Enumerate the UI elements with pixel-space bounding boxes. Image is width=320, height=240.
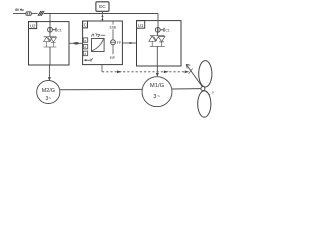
svg-text:FP: FP — [117, 41, 121, 45]
motor M1/G — [142, 77, 172, 107]
wire supply lead — [13, 13, 26, 15]
breaker CB — [26, 12, 31, 16]
wire — [112, 45, 114, 55]
wire EC down — [101, 11, 103, 14]
converter box U1 — [137, 21, 182, 66]
node circle in U1 — [155, 27, 160, 32]
thyristor pair U2 — [44, 37, 57, 47]
svg-text:60 Hz: 60 Hz — [15, 8, 24, 12]
wire to motor M2/G — [48, 47, 51, 78]
bidirectional arrow U2 to C — [69, 42, 83, 44]
svg-text:3~: 3~ — [45, 96, 51, 102]
dashed pitch control line — [102, 65, 189, 73]
wire — [31, 13, 37, 15]
converter box U2 — [29, 22, 70, 65]
arrowhead into M1/G — [156, 73, 159, 77]
svg-text:3~: 3~ — [153, 94, 160, 100]
port square a — [83, 38, 87, 43]
function block with curve — [92, 39, 105, 52]
svg-text:U2: U2 — [30, 24, 36, 29]
EC box — [96, 2, 109, 12]
wire top rail — [44, 13, 158, 15]
wire — [49, 32, 51, 37]
svg-text:9: 9 — [212, 91, 214, 95]
motor M2/G — [37, 80, 60, 103]
wire drop to U2 — [49, 14, 51, 28]
propeller blade upper — [199, 61, 212, 87]
svg-text:EC: EC — [99, 4, 106, 10]
svg-text:C1: C1 — [165, 28, 169, 32]
pitch rod diagonal — [186, 64, 203, 87]
wire — [157, 32, 159, 36]
arrow C to U1 — [122, 42, 136, 44]
label box C — [83, 21, 88, 28]
wire — [112, 29, 114, 39]
capacitor C1 — [52, 28, 61, 33]
node circle in U2 — [48, 27, 53, 32]
signal column ESB — [112, 21, 114, 25]
svg-text:d: d — [84, 45, 86, 49]
svg-text:M1/G: M1/G — [150, 83, 165, 89]
wire drop to U1 — [157, 14, 159, 28]
hub — [201, 87, 205, 91]
meter circle — [111, 40, 116, 45]
shaft M2/G to M1/G — [60, 88, 143, 90]
controller box C — [83, 21, 123, 65]
label box U1 — [137, 21, 145, 29]
hub tail line — [204, 90, 210, 95]
shaft M1/G to propeller — [172, 88, 201, 90]
svg-text:C1: C1 — [57, 28, 61, 32]
svg-text:a: a — [84, 39, 86, 43]
port square d — [83, 45, 87, 50]
propeller blade lower — [198, 91, 211, 117]
thyristor pair U1 — [149, 36, 165, 47]
port square 4 — [83, 51, 87, 56]
svg-text:U1: U1 — [138, 23, 144, 28]
label box U2 — [29, 22, 37, 29]
svg-text:EIP: EIP — [110, 56, 115, 60]
arrowhead into M2/G — [48, 77, 51, 81]
double arrow EC to C — [101, 15, 103, 21]
capacitor C2 — [160, 28, 170, 33]
svg-text:C: C — [84, 23, 87, 28]
katakana label inside C — [91, 33, 105, 37]
svg-text:ESB: ESB — [110, 26, 116, 30]
wire to motor M1/G — [156, 46, 158, 73]
three-phase slashes — [38, 11, 44, 16]
mode arrow inside C — [84, 58, 93, 61]
svg-text:M2/G: M2/G — [42, 88, 55, 94]
